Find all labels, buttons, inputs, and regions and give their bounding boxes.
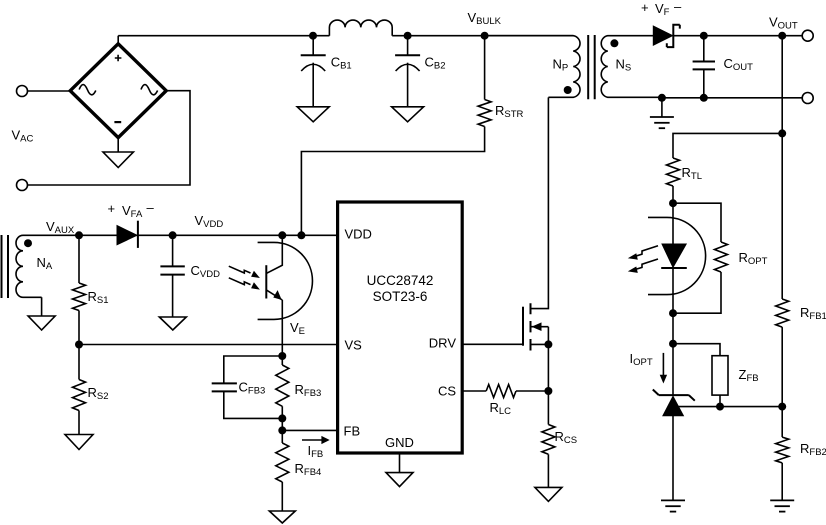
label R_TL xyxy=(682,165,702,182)
aux winding core xyxy=(2,235,9,298)
capacitor C_VDD stem top xyxy=(172,235,174,266)
capacitor C_B2 flat plate xyxy=(395,54,420,56)
wire Z_FB bottom xyxy=(719,395,721,407)
svg-text:SOT23-6: SOT23-6 xyxy=(373,289,428,304)
node Z_FB bottom xyxy=(716,403,724,411)
capacitor C_B1 stem top xyxy=(312,36,314,56)
label Z_FB xyxy=(739,367,759,384)
ground C_B2 xyxy=(392,107,424,122)
label V_E xyxy=(290,320,305,337)
capacitor C_OUT plates xyxy=(693,62,715,70)
transistor Q1 source wire xyxy=(531,327,549,345)
aux winding polarity dot xyxy=(24,239,32,247)
ground secondary stem xyxy=(661,98,663,117)
ground bridge xyxy=(103,152,133,168)
diode D_aux triangle xyxy=(117,226,137,245)
transformer primary polarity dot xyxy=(564,86,572,94)
svg-text:FB: FB xyxy=(344,424,361,439)
ground R_FB4 xyxy=(269,511,295,523)
node MOSFET source xyxy=(544,340,552,348)
transistor Q1 body wire xyxy=(531,322,549,331)
label R_FB1 xyxy=(800,305,826,322)
label UCC28742 xyxy=(367,273,434,288)
bridge sine symbol right xyxy=(141,85,158,95)
wire VS line xyxy=(79,344,338,346)
label SOT23-6 xyxy=(373,289,428,304)
label C_B1 xyxy=(331,55,352,72)
label R_FB3 xyxy=(295,382,322,399)
capacitor C_B1 curved plate xyxy=(301,64,325,71)
label V_BULK xyxy=(468,10,502,27)
node LED top xyxy=(669,199,677,207)
capacitor C_OUT stem bottom xyxy=(703,69,705,97)
optocoupler LED bar xyxy=(661,267,687,269)
node C_B2 junction xyxy=(404,32,412,40)
resistor R_OPT branch top xyxy=(673,203,721,242)
resistor R_FB2 xyxy=(776,437,789,463)
svg-text:CS: CS xyxy=(438,384,456,399)
ground IC GND stem xyxy=(399,453,401,473)
label + V_FA - xyxy=(108,200,155,220)
svg-text:+: + xyxy=(641,0,649,15)
transistor Q1 gate bar xyxy=(522,307,524,346)
optocoupler LED triangle xyxy=(662,244,686,267)
resistor R_S2 xyxy=(73,380,86,411)
capacitor C_VDD plates xyxy=(160,266,184,274)
wire R_CS bottom xyxy=(547,454,549,487)
transformer core xyxy=(588,35,595,99)
shunt regulator zener bar xyxy=(653,390,695,401)
node CS xyxy=(544,387,552,395)
label R_FB2 xyxy=(800,441,826,458)
AC input terminal (bottom) xyxy=(17,180,28,191)
pin label DRV xyxy=(429,336,457,351)
wire R_STR top xyxy=(484,36,486,100)
phototransistor base bar xyxy=(265,265,267,298)
phototransistor collector xyxy=(266,235,282,273)
svg-text:–: – xyxy=(147,200,155,215)
AC input terminal (top) xyxy=(17,86,28,97)
label R_S2 xyxy=(88,385,109,402)
wire DRV to gate xyxy=(462,343,523,345)
terminal V_OUT- xyxy=(802,93,813,104)
svg-text:VS: VS xyxy=(345,338,363,353)
terminal V_OUT+ xyxy=(802,30,813,41)
wire R_S2 bottom xyxy=(78,411,80,435)
label N_A xyxy=(37,255,53,272)
arrow I_FB xyxy=(302,436,330,444)
wire diode to V_OUT xyxy=(673,35,803,37)
wire zener node line xyxy=(673,406,782,408)
wire LED bottom to zener xyxy=(672,313,674,395)
wire right rail middle xyxy=(781,327,783,437)
wire FB line xyxy=(282,429,337,431)
resistor R_STR xyxy=(478,100,491,127)
wire R_STR to VDD line xyxy=(301,127,484,236)
wire CS pin xyxy=(462,390,486,392)
node output rail branch xyxy=(778,32,786,40)
resistor R_TL xyxy=(667,158,680,186)
node C_VDD junction xyxy=(169,231,177,239)
wire R_S1 bottom xyxy=(78,311,80,345)
wire source to CS node xyxy=(547,344,549,391)
wire AC top terminal to bridge xyxy=(28,90,71,92)
arrow I_OPT xyxy=(660,353,667,384)
capacitor C_B1 stem bottom xyxy=(312,63,314,107)
ground secondary earth xyxy=(650,117,674,128)
bridge rectifier diamond xyxy=(70,44,166,138)
label R_CS xyxy=(555,429,578,446)
label I_FB xyxy=(308,443,324,460)
label C_VDD xyxy=(191,263,221,280)
pin label VDD xyxy=(345,227,372,242)
label N_S xyxy=(616,57,632,74)
wire R_S1 top xyxy=(78,235,80,283)
transformer secondary polarity dot xyxy=(610,39,618,47)
ground R_CS xyxy=(535,487,562,501)
label R_OPT xyxy=(739,250,768,267)
label R_LC xyxy=(490,400,512,417)
bridge sine symbol left xyxy=(79,85,96,95)
node Z_FB branch xyxy=(669,340,677,348)
transistor Q1 channel bar xyxy=(530,303,532,350)
bridge + mark xyxy=(115,55,122,62)
label R_S1 xyxy=(88,289,109,306)
wire R_TL to LED node xyxy=(672,186,674,203)
wire bridge right vertex to AC bottom terminal xyxy=(28,91,191,185)
node LED bottom xyxy=(669,309,677,317)
shunt regulator zener triangle xyxy=(663,396,684,415)
resistor R_OPT branch bottom xyxy=(673,272,721,313)
label C_OUT xyxy=(724,56,754,73)
node V_AUX R_S1 xyxy=(75,231,83,239)
wire zener to ground xyxy=(672,416,674,501)
pin label CS xyxy=(438,384,456,399)
ground IC GND xyxy=(386,473,413,487)
label R_STR xyxy=(495,103,524,120)
bridge - mark xyxy=(114,121,121,123)
wire emitter to R_FB3 node xyxy=(281,300,283,356)
wire rail to R_TL xyxy=(673,133,782,158)
wire right rail lower xyxy=(781,463,783,501)
node rail R_TL branch xyxy=(778,129,786,137)
capacitor C_OUT stem top xyxy=(703,36,705,62)
wire top bus bridge to inductor xyxy=(118,35,329,37)
wire C_FB3 bottom xyxy=(224,391,282,418)
inductor L bulk xyxy=(329,20,392,36)
pin label VS xyxy=(345,338,363,353)
wire R_S2 top xyxy=(78,345,80,380)
impedance Z_FB box xyxy=(712,356,728,395)
wire right rail upper xyxy=(781,36,783,299)
wire R_CS top xyxy=(547,391,549,425)
label R_FB4 xyxy=(295,461,322,478)
resistor R_S1 xyxy=(73,283,86,311)
node C_OUT bottom xyxy=(700,94,708,102)
capacitor C_FB3 plates xyxy=(212,383,237,391)
wire C_FB3 top xyxy=(224,356,282,383)
node secondary ground xyxy=(658,94,666,102)
diode D_aux bar xyxy=(137,221,139,248)
node C_FB3 bottom xyxy=(278,414,286,422)
node R_STR junction xyxy=(297,231,305,239)
ground C_B1 xyxy=(297,107,329,122)
ground R_FB2 earth xyxy=(770,500,794,511)
resistor R_LC xyxy=(486,385,516,398)
svg-text:GND: GND xyxy=(385,435,414,450)
transformer primary winding N_P xyxy=(485,36,580,98)
capacitor C_VDD stem bottom xyxy=(172,275,174,317)
aux winding N_A xyxy=(16,235,42,316)
capacitor C_B2 stem bottom xyxy=(407,63,409,107)
optocoupler LED emission arrow 1 xyxy=(628,246,658,260)
resistor R_FB1 xyxy=(776,299,789,327)
node VS divider xyxy=(75,341,83,349)
diode D_out schottky bar xyxy=(667,25,680,47)
wire R_FB4 bottom xyxy=(281,482,283,511)
node R_FB3 top xyxy=(278,352,286,360)
label N_P xyxy=(553,57,569,74)
label C_FB3 xyxy=(239,380,266,397)
transformer secondary winding N_S xyxy=(601,36,662,98)
resistor R_FB3 xyxy=(276,365,289,406)
ground C_VDD xyxy=(159,317,186,330)
svg-text:+: + xyxy=(108,201,116,216)
wire Z_FB branch xyxy=(673,344,720,356)
wire R_FB3 stubs xyxy=(281,356,283,443)
node V_BULK xyxy=(481,32,489,40)
node phototransistor collector xyxy=(278,231,286,239)
diode D_out schottky triangle xyxy=(653,26,672,45)
ground R_S2 xyxy=(65,435,93,450)
label C_B2 xyxy=(425,55,446,72)
pin label GND xyxy=(385,435,414,450)
label V_AC xyxy=(12,128,34,145)
svg-text:DRV: DRV xyxy=(429,336,457,351)
phototransistor envelope xyxy=(258,242,313,319)
node FB xyxy=(278,426,286,434)
optocoupler LED emission arrow 2 xyxy=(628,259,658,273)
wire drain from transformer xyxy=(531,97,549,308)
resistor R_OPT xyxy=(715,242,728,272)
capacitor C_B1 flat plate xyxy=(301,54,326,56)
node C_B1 junction xyxy=(309,32,317,40)
ground bridge stem xyxy=(117,138,119,152)
wire V_AUX to VDD pin xyxy=(23,234,338,236)
label V_VDD xyxy=(195,213,224,230)
wire LED cathode xyxy=(672,268,674,313)
phototransistor light arrow 1 xyxy=(229,266,260,278)
wire R_LC to node xyxy=(516,390,548,392)
label + V_F - xyxy=(641,0,682,18)
svg-text:–: – xyxy=(674,0,682,14)
node C_OUT top xyxy=(700,32,708,40)
phototransistor light arrow 2 xyxy=(229,278,260,290)
pin label FB xyxy=(344,424,361,439)
ground N_A xyxy=(28,316,55,330)
node rail zener line xyxy=(778,403,786,411)
wire top bus inductor to transformer xyxy=(392,35,573,37)
label I_OPT xyxy=(630,351,653,368)
wire LED anode xyxy=(672,203,674,244)
resistor R_CS xyxy=(542,425,555,455)
svg-text:UCC28742: UCC28742 xyxy=(367,273,434,288)
wire bridge top vertex to bus xyxy=(117,36,119,44)
ground zener earth xyxy=(661,500,685,511)
phototransistor emitter xyxy=(266,290,282,300)
svg-text:VDD: VDD xyxy=(345,227,372,242)
label V_AUX xyxy=(46,219,75,236)
op-amp U1 UCC28742 body xyxy=(338,202,463,453)
label V_OUT xyxy=(769,15,798,32)
capacitor C_B2 curved plate xyxy=(396,64,420,71)
resistor R_FB4 xyxy=(276,443,289,482)
wire secondary bottom rail xyxy=(662,97,802,99)
capacitor C_B2 stem top xyxy=(407,36,409,56)
optocoupler LED envelope xyxy=(648,217,706,294)
